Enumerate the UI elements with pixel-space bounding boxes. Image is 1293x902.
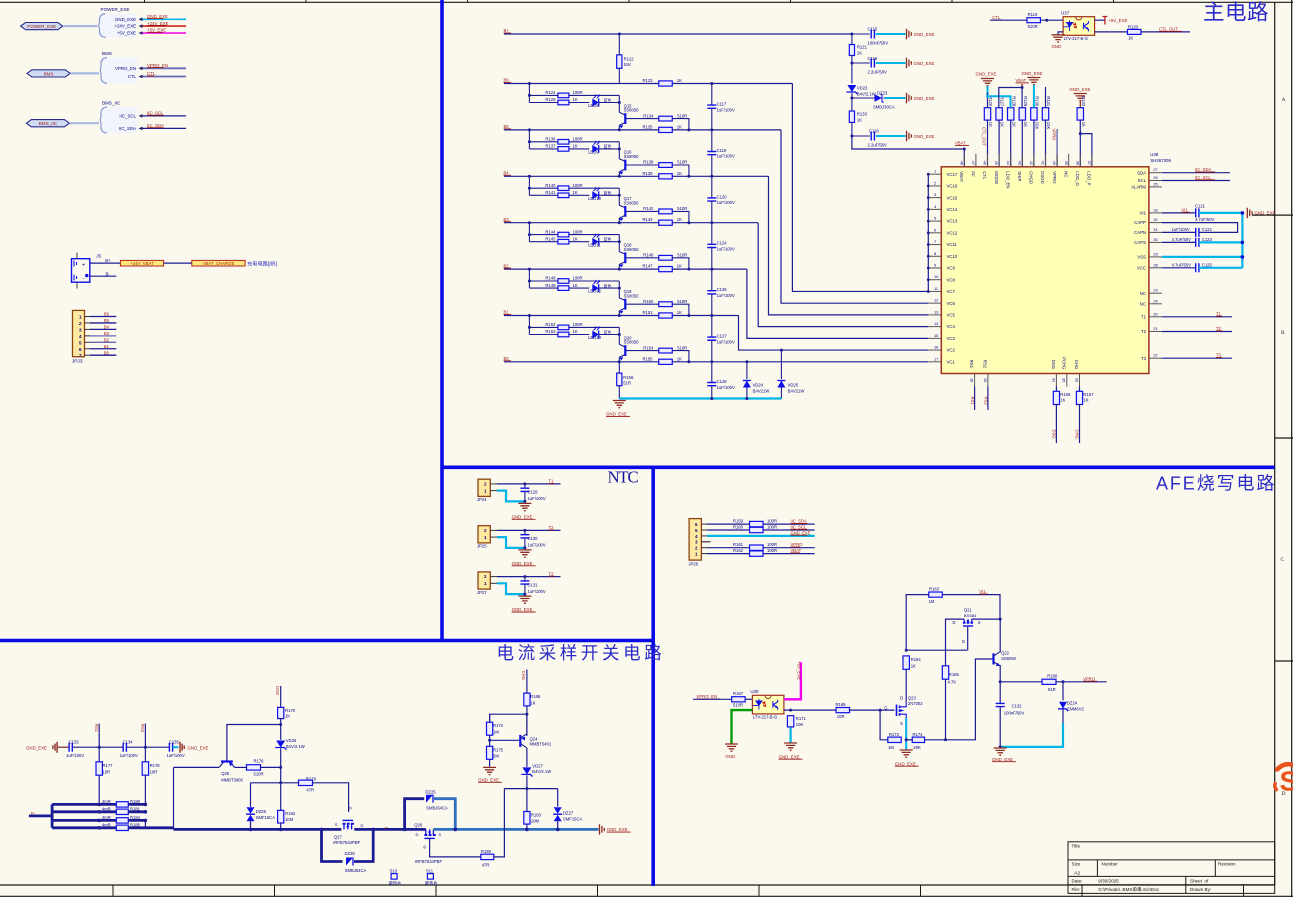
svg-text:VI1: VI1	[1140, 211, 1147, 216]
resistor R131 10K (pin 41)	[1042, 108, 1048, 120]
svg-text:CTL: CTL	[992, 15, 1001, 20]
connector JP26	[688, 519, 701, 567]
wire CTL to R119	[990, 19, 1027, 21]
wire U39 pin2 to GND (green)	[732, 710, 753, 743]
svg-text:R122: R122	[624, 56, 635, 61]
svg-text:SMBJ30CA: SMBJ30CA	[873, 104, 895, 109]
wire node column into Q17 collector	[618, 188, 620, 205]
svg-text:VC17: VC17	[947, 172, 958, 177]
wire R131 top stub	[1045, 87, 1047, 108]
svg-text:R144: R144	[545, 229, 556, 234]
junction B3 at capacitor column	[710, 221, 713, 224]
svg-text:47R: 47R	[482, 862, 490, 867]
wire R127 to IC pin 45	[998, 120, 1000, 167]
wire B5 to IC pin VC (staircase)	[781, 130, 928, 303]
svg-text:6: 6	[934, 227, 936, 232]
power port GND_EXE (C115)	[907, 29, 912, 39]
wire emitter of Q19 to rail B1	[618, 311, 620, 316]
svg-text:VC4: VC4	[947, 324, 956, 329]
transistor Q26 IRFB7534PBF N-MOSFET (mirrored)	[414, 823, 442, 864]
svg-text:DSGD: DSGD	[1040, 171, 1045, 183]
wire R164 top node	[906, 649, 967, 651]
wire R174 to Q22 base riser	[925, 659, 994, 740]
resistor R121 1K	[851, 34, 853, 45]
wire net B2 rail	[504, 268, 660, 270]
svg-text:R170: R170	[285, 708, 296, 713]
wire VPRO stub pin 40	[1056, 129, 1058, 167]
resistor R153 1K	[529, 334, 589, 336]
wire Q27 drain to P node	[354, 828, 404, 831]
svg-text:10K: 10K	[1035, 122, 1040, 130]
svg-text:16: 16	[934, 345, 938, 350]
resistor R154 510R (base)	[625, 350, 658, 352]
svg-text:2: 2	[484, 481, 487, 486]
svg-text:Number: Number	[1102, 862, 1119, 867]
resistor R164 1K	[903, 656, 909, 669]
wire R172 R175 node to Q24 base	[488, 739, 491, 742]
svg-text:J5: J5	[96, 254, 101, 259]
junction B6 at capacitor column	[710, 82, 713, 85]
svg-text:R123: R123	[643, 78, 654, 83]
wire IIC_SCL pin 26	[1162, 180, 1230, 182]
wire R170 junction to Q25 base	[279, 723, 282, 726]
wire stage branch for Q20	[528, 316, 530, 335]
svg-text:B5: B5	[104, 318, 110, 323]
svg-text:+5V_EXE: +5V_EXE	[1108, 18, 1127, 23]
resistor R120 1K	[1127, 29, 1141, 34]
IC U38 right pins	[1149, 173, 1162, 359]
svg-text:R184: R184	[130, 815, 141, 820]
svg-text:R171: R171	[796, 716, 807, 721]
svg-text:GND_EXE: GND_EXE	[1070, 87, 1091, 92]
resistor R186 47R	[481, 854, 494, 859]
svg-text:1: 1	[695, 552, 698, 557]
IC U38 left pins VC17-VC1	[928, 174, 941, 362]
svg-text:R178: R178	[150, 763, 161, 768]
svg-text:蓝色: 蓝色	[604, 97, 612, 103]
wire GND_EXE to R126 R128 (cyan)	[988, 86, 1011, 108]
wire DSG node down to R179 row	[280, 767, 282, 810]
svg-text:1K: 1K	[1023, 122, 1028, 127]
svg-text:10R: 10R	[837, 714, 845, 719]
capacitor C129 1uF/100V	[523, 482, 526, 485]
wire CAPP loop to C122	[1162, 223, 1238, 233]
capacitor C127 1uF/100V	[711, 316, 713, 338]
svg-text:G: G	[422, 846, 427, 849]
svg-text:T1: T1	[1141, 314, 1147, 319]
svg-text:R130: R130	[1035, 96, 1040, 107]
wire R120 to CTL_OUT	[1141, 31, 1190, 33]
title block	[1068, 842, 1275, 894]
svg-text:510R: 510R	[677, 206, 687, 211]
svg-text:4mR: 4mR	[102, 806, 111, 811]
svg-text:Q27: Q27	[334, 834, 343, 839]
svg-text:1uF/100V: 1uF/100V	[528, 543, 546, 548]
svg-text:510R: 510R	[677, 299, 687, 304]
svg-text:GND_EXE: GND_EXE	[478, 777, 499, 782]
svg-text:DSG: DSG	[1051, 360, 1056, 370]
svg-text:B6: B6	[504, 78, 510, 83]
svg-text:A2: A2	[1074, 870, 1080, 876]
svg-text:LDO_O: LDO_O	[1075, 171, 1080, 186]
svg-text:1K: 1K	[677, 356, 682, 361]
wire JP25 pin2 to T2	[490, 529, 497, 531]
svg-text:ALARM: ALARM	[1131, 185, 1146, 190]
resistor R119 510R	[1027, 18, 1041, 23]
capacitor C116 2.2uF/50V	[850, 62, 853, 65]
zener DZ24 ZMM6V2	[1062, 682, 1064, 701]
resistor R124 100R	[529, 94, 558, 96]
svg-text:LTV-217-B-G: LTV-217-B-G	[753, 715, 777, 720]
svg-text:蓝色: 蓝色	[604, 282, 612, 288]
svg-text:42: 42	[1029, 161, 1034, 165]
svg-text:31: 31	[1153, 227, 1157, 232]
svg-text:35: 35	[1062, 378, 1067, 382]
svg-text:GND_EXE: GND_EXE	[914, 32, 935, 37]
svg-text:3: 3	[695, 540, 698, 545]
svg-text:VPRO_EN: VPRO_EN	[115, 66, 136, 71]
svg-text:SMBJ64CA: SMBJ64CA	[426, 805, 448, 810]
svg-text:P: P	[385, 826, 388, 831]
svg-text:4.7uF/50V: 4.7uF/50V	[1172, 237, 1192, 242]
connector JP23	[72, 310, 85, 363]
svg-text:R136: R136	[545, 137, 556, 142]
svg-text:C133: C133	[69, 739, 80, 744]
svg-text:1uF/100V: 1uF/100V	[120, 753, 138, 758]
svg-text:蓝色: 蓝色	[604, 329, 612, 335]
svg-text:R160: R160	[733, 525, 744, 530]
wire net B1 rail	[504, 315, 660, 317]
svg-text:IIC_SCL: IIC_SCL	[119, 114, 136, 119]
junction B0 at capacitor column	[710, 360, 713, 363]
resistor R137 1K	[529, 148, 589, 150]
wire stage branch for Q17	[528, 176, 530, 195]
svg-text:GND_EXE: GND_EXE	[895, 761, 916, 766]
svg-text:CAPS: CAPS	[1134, 240, 1146, 245]
ground GND_EXE (R171)	[784, 743, 797, 750]
wire net B0 rail	[504, 361, 660, 363]
net label +24V_VBAT	[120, 260, 163, 266]
svg-text:Title: Title	[1072, 843, 1081, 848]
resistor R122 51K	[618, 34, 620, 56]
junction on B+ at R122	[618, 33, 621, 36]
resistor R171 10K	[787, 716, 793, 727]
ground GND (U37)	[1052, 35, 1065, 42]
svg-text:BAV21W: BAV21W	[788, 388, 805, 393]
wire U39 pin3 to R169	[784, 709, 837, 711]
svg-text:S: S	[438, 832, 441, 837]
svg-text:7: 7	[934, 239, 936, 244]
svg-text:+: +	[82, 262, 85, 268]
svg-text:S: S	[900, 721, 903, 726]
svg-text:AFE烧写电路: AFE烧写电路	[1156, 474, 1276, 494]
svg-text:R163: R163	[929, 586, 940, 591]
svg-text:IIC_SDA: IIC_SDA	[791, 519, 807, 524]
svg-text:10M: 10M	[285, 817, 294, 822]
svg-text:D: D	[416, 832, 419, 837]
svg-text:18: 18	[970, 378, 975, 382]
svg-text:VC8: VC8	[947, 277, 956, 282]
wire net B+ rail	[504, 33, 852, 35]
resistor R168 1K	[526, 670, 528, 694]
power port GND_EXE (DZ23)	[907, 93, 912, 103]
resistor R139 1K (series in B4)	[659, 174, 673, 179]
wire DZ26 branch	[251, 782, 281, 784]
svg-text:10K: 10K	[1046, 122, 1051, 130]
section divider vertical right of NTC / left of AFE	[651, 467, 655, 886]
svg-text:1K: 1K	[677, 217, 682, 222]
svg-text:R135: R135	[643, 124, 654, 129]
svg-text:47R: 47R	[306, 788, 314, 793]
section divider vertical left of main circuit	[440, 0, 444, 641]
svg-text:T1: T1	[549, 479, 555, 484]
svg-text:VD26: VD26	[286, 738, 297, 743]
svg-text:1K: 1K	[1011, 122, 1016, 127]
wire U37 pin3 to R120	[1095, 31, 1127, 33]
svg-text:C126: C126	[717, 287, 728, 292]
svg-text:GND_EXE: GND_EXE	[1022, 71, 1043, 76]
resistor R158 1K (DSG)	[1055, 387, 1057, 392]
wire Q21 drain to R165	[946, 619, 965, 666]
svg-text:100R: 100R	[573, 276, 583, 281]
transistor Q21 BSS84 P-MOSFET	[953, 608, 981, 644]
svg-text:1K: 1K	[677, 78, 682, 83]
svg-text:C118: C118	[869, 129, 879, 134]
svg-text:LED9: LED9	[588, 150, 599, 155]
svg-text:VC10: VC10	[947, 254, 958, 259]
svg-text:R142: R142	[643, 206, 654, 211]
svg-text:R129: R129	[1023, 96, 1028, 107]
svg-text:JP23: JP23	[72, 358, 83, 363]
junction B4 at capacitor column	[710, 175, 713, 178]
svg-text:VC2: VC2	[947, 348, 956, 353]
svg-text:100R: 100R	[573, 90, 583, 95]
IC U38 SH367309	[941, 167, 1149, 374]
svg-text:510R: 510R	[677, 253, 687, 258]
zener VD27 B4V/2.1W	[522, 767, 531, 774]
svg-text:B3: B3	[104, 331, 110, 336]
wire Q22 emitter to R166 row	[999, 666, 1002, 682]
svg-text:510R: 510R	[677, 160, 687, 165]
svg-text:SS8050: SS8050	[624, 293, 640, 298]
svg-text:T2: T2	[549, 525, 555, 530]
svg-text:21: 21	[1153, 326, 1157, 331]
svg-text:1: 1	[934, 169, 936, 174]
svg-text:MODE: MODE	[994, 171, 999, 184]
wire JP26 pin4 GND_EXE (cyan)	[701, 535, 707, 537]
svg-text:LED10: LED10	[588, 196, 601, 201]
svg-text:VC14: VC14	[947, 207, 958, 212]
svg-text:R158: R158	[1060, 392, 1071, 397]
svg-text:13: 13	[934, 309, 938, 314]
svg-text:B1: B1	[504, 310, 510, 315]
transistor Q20 SS8050	[619, 335, 639, 360]
svg-text:R137: R137	[545, 144, 556, 149]
svg-text:3: 3	[934, 192, 936, 197]
svg-text:SS8050: SS8050	[624, 340, 640, 345]
wire JP26 pin3 stub	[701, 541, 710, 543]
resistor R174 20K	[906, 739, 912, 741]
section divider horizontal below NTC	[0, 639, 653, 643]
svg-text:32: 32	[1153, 217, 1157, 222]
svg-text:2: 2	[484, 574, 487, 579]
resistor R142 510R (base)	[625, 210, 658, 212]
svg-text:R177: R177	[103, 763, 114, 768]
svg-text:R173: R173	[889, 732, 900, 737]
svg-text:R155: R155	[643, 356, 654, 361]
wire R163 to VI1 node	[943, 595, 1001, 620]
svg-text:1K: 1K	[573, 236, 578, 241]
svg-text:POWER_EXE: POWER_EXE	[101, 7, 130, 12]
svg-text:R176: R176	[254, 759, 265, 764]
svg-text:R164: R164	[911, 657, 922, 662]
zener VD26 B4V/2.1W	[280, 739, 282, 741]
capacitor C130 1uF/100V	[523, 529, 526, 532]
svg-text:1K: 1K	[573, 97, 578, 102]
resistor R156 51R	[618, 360, 621, 363]
svg-text:R186: R186	[481, 849, 492, 854]
svg-text:Q22: Q22	[1001, 650, 1010, 655]
svg-text:4mR: 4mR	[102, 815, 111, 820]
junction B+ at right column	[850, 33, 853, 36]
svg-text:VC6: VC6	[947, 301, 956, 306]
wire net B4 rail	[504, 175, 660, 177]
svg-text:VC11: VC11	[947, 242, 958, 247]
resistor R126 1K (pin 46)	[984, 108, 990, 120]
svg-text:CTL: CTL	[982, 171, 987, 180]
svg-text:1uF/100V: 1uF/100V	[717, 200, 735, 205]
svg-text:VBAT: VBAT	[955, 141, 966, 146]
wire node column into Q19 collector	[618, 281, 620, 298]
resistor R162 100R (JP26)	[701, 553, 707, 555]
svg-text:1uF/100V: 1uF/100V	[528, 589, 546, 594]
capacitor C117 1uF/100V	[711, 84, 713, 106]
svg-text:SS8050: SS8050	[624, 154, 640, 159]
svg-text:IIC_SCL: IIC_SCL	[791, 525, 807, 530]
svg-text:39: 39	[1064, 161, 1069, 165]
svg-text:R134: R134	[643, 113, 654, 118]
wire JP25 pin1 to ground (cyan)	[490, 536, 497, 538]
svg-text:RS2: RS2	[140, 724, 145, 733]
junction B2 at capacitor column	[710, 268, 713, 271]
svg-text:LED11: LED11	[588, 242, 601, 247]
ground GND_EXE (C131)	[518, 596, 531, 603]
svg-text:R121: R121	[857, 45, 868, 50]
resistor R134 510R (base)	[625, 118, 658, 120]
svg-text:4: 4	[79, 334, 82, 340]
ground GND_EXE (C132)	[994, 748, 1007, 755]
junctions on shunt columns	[97, 803, 101, 807]
wire R168 junction to R172	[525, 713, 528, 716]
wire VBAT to IC pin 48	[852, 136, 964, 167]
wire B1 to IC pin VC (staircase)	[739, 316, 929, 351]
svg-text:B3: B3	[504, 217, 510, 222]
shunt resistor R180 4mR	[52, 803, 116, 806]
svg-text:RS1: RS1	[94, 724, 99, 733]
wire R164 to Q23 drain	[905, 669, 907, 703]
svg-text:C123: C123	[1202, 237, 1213, 242]
svg-text:D: D	[953, 620, 956, 625]
svg-text:R127: R127	[1000, 96, 1005, 107]
transistor Q15 SS8050	[619, 103, 639, 128]
resistor R132 1K (pin 38)	[1074, 94, 1087, 101]
svg-text:1: 1	[484, 488, 487, 493]
svg-text:RS1: RS1	[970, 397, 975, 406]
wire VBAT to R127 R129	[999, 88, 1022, 108]
svg-text:4mR: 4mR	[102, 799, 111, 804]
svg-text:B4V/2.1W: B4V/2.1W	[857, 91, 876, 96]
svg-text:2: 2	[934, 180, 936, 185]
svg-text:51R: 51R	[1048, 687, 1056, 692]
svg-text:SDA: SDA	[1137, 170, 1146, 175]
svg-text:D: D	[361, 823, 364, 828]
svg-text:SCL: SCL	[1138, 178, 1147, 183]
resistor R140 100R	[529, 187, 558, 189]
svg-text:R157: R157	[1083, 392, 1094, 397]
svg-text:1M: 1M	[888, 745, 894, 750]
wire JP23 pin 4 net B3	[85, 335, 91, 337]
svg-text:1K: 1K	[677, 171, 682, 176]
capacitor C118 2.2uF/50V	[850, 135, 853, 138]
svg-text:1uF/100V: 1uF/100V	[717, 247, 735, 252]
svg-text:100R: 100R	[767, 548, 777, 553]
svg-text:1K: 1K	[1060, 398, 1065, 403]
svg-text:R161: R161	[733, 542, 744, 547]
harness port BMS	[27, 70, 70, 77]
svg-text:DZ25: DZ25	[425, 789, 436, 794]
zone ticks bottom margin	[113, 885, 1244, 896]
svg-text:RS2: RS2	[984, 397, 989, 406]
svg-text:2N7002: 2N7002	[908, 701, 923, 706]
svg-text:1K: 1K	[1128, 36, 1133, 41]
svg-text:IIC_SDA: IIC_SDA	[1195, 167, 1211, 172]
svg-text:DZ26: DZ26	[256, 809, 267, 814]
svg-text:8: 8	[934, 251, 936, 256]
transistor Q16 SS8050	[619, 150, 639, 175]
capacitor C132 100nF/50V	[999, 682, 1001, 704]
wire U39 pin4 to +5V_EXE (magenta)	[784, 662, 801, 699]
transistor Q25 MMBT3906 PNP	[219, 762, 243, 783]
wire JP24 pin1 to ground (cyan)	[490, 490, 497, 492]
resistor R144 100R	[529, 234, 558, 236]
harness wire BMS	[70, 72, 99, 74]
svg-text:GND_EXE: GND_EXE	[607, 827, 628, 832]
wire stage branch for Q16	[528, 130, 530, 149]
svg-text:SMF15CA: SMF15CA	[256, 815, 276, 820]
wire JP24 pin2 to T1	[490, 483, 497, 485]
optocoupler U37 LTV-217-B-G	[1061, 11, 1095, 41]
wire VPRO_EN to R167	[693, 698, 731, 700]
svg-text:100nF/50V: 100nF/50V	[1004, 710, 1025, 715]
power port +5V_EXE	[1103, 16, 1108, 25]
svg-text:B+: B+	[504, 28, 510, 33]
svg-text:1uF/100V: 1uF/100V	[717, 154, 735, 159]
svg-text:+24V_EXE: +24V_EXE	[114, 24, 136, 29]
svg-text:VBAT: VBAT	[791, 548, 802, 553]
svg-text:R128: R128	[1011, 96, 1016, 107]
net label VBAT_CHARGE	[192, 260, 245, 266]
svg-text:100R: 100R	[573, 183, 583, 188]
svg-text:GND_EXE: GND_EXE	[512, 514, 533, 519]
capacitor C124 1uF/100V	[711, 223, 713, 245]
wire J5 B+ pin	[90, 262, 121, 264]
svg-text:6: 6	[695, 522, 698, 527]
wire VSS pin 29 (cyan)	[1162, 256, 1243, 258]
svg-text:510R: 510R	[677, 345, 687, 350]
wire R163 left leg	[906, 595, 928, 651]
svg-text:LDO_EN: LDO_EN	[1005, 171, 1010, 188]
ground GND_EXE below main circuit	[613, 401, 626, 408]
